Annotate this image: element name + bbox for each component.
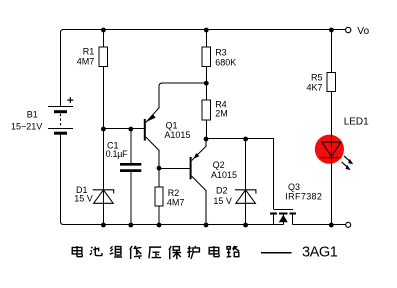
node top rail R3 junction [204, 28, 209, 33]
wire bottom rail right [293, 224, 346, 226]
svg-text:4M7: 4M7 [77, 57, 95, 67]
R3 label 680K [215, 48, 236, 68]
resistor R2 [155, 169, 163, 225]
caption 压 [149, 247, 161, 258]
svg-text:A1015: A1015 [211, 170, 237, 180]
wire R4 bottom [205, 120, 207, 139]
caption 护 [187, 246, 199, 259]
battery B1 [48, 97, 73, 133]
caption 3AG1 [302, 245, 338, 261]
svg-text:4K7: 4K7 [306, 83, 322, 93]
node bottom rail R2 junction [157, 223, 162, 228]
resistor R1 [99, 47, 107, 66]
caption 电 second [209, 246, 219, 257]
svg-text:R5: R5 [311, 73, 323, 83]
MOSFET Q3 [270, 209, 296, 224]
svg-text:15 V: 15 V [74, 194, 93, 204]
node bottom rail D1 junction [101, 223, 106, 228]
LED1 label [344, 116, 369, 127]
wire Q1 base rail [103, 128, 144, 130]
svg-text:4M7: 4M7 [167, 197, 185, 207]
caption 池 [90, 247, 102, 256]
caption 路 [227, 246, 239, 257]
Q1 label A1015 [164, 120, 190, 140]
transistor Q2 [191, 139, 206, 225]
node top rail R5 junction [329, 28, 334, 33]
svg-text:Q1: Q1 [166, 120, 178, 130]
resistor R5 [327, 73, 335, 92]
svg-text:3AG1: 3AG1 [302, 245, 338, 261]
node bottom rail LED junction [329, 223, 334, 228]
Q2 label A1015 [211, 160, 237, 180]
svg-text:B1: B1 [27, 110, 38, 120]
node Q1 collector R2 junction [157, 166, 162, 171]
node R3 R4 junction [204, 81, 209, 86]
zener diode D2 [235, 139, 256, 225]
svg-text:15 V: 15 V [213, 196, 232, 206]
wire Q2 emitter rail to Q3 gate [206, 139, 273, 210]
wire Q1 collector to Q2 base [159, 168, 190, 170]
LED LED1 [315, 92, 353, 225]
R4 label 2M [215, 100, 228, 119]
D2 label 15V [213, 186, 232, 206]
R2 label 4M7 [167, 188, 185, 208]
node R4 Q2 emitter junction [204, 137, 209, 142]
resistor R4 [202, 100, 210, 120]
wire Vo stub [331, 29, 345, 31]
C1 label 0.1uF [106, 141, 128, 159]
wire top rail [61, 30, 346, 107]
R5 label 4K7 [306, 73, 322, 93]
wire R5 LED column [330, 30, 332, 73]
svg-text:Vo: Vo [357, 26, 369, 37]
capacitor C1 [120, 129, 141, 225]
svg-text:0.1µF: 0.1µF [106, 149, 128, 159]
node bottom rail C1 junction [128, 223, 133, 228]
R1 label 4M7 [77, 47, 95, 67]
svg-text:Q3: Q3 [288, 182, 300, 192]
node D2 top junction [243, 137, 248, 142]
svg-text:A1015: A1015 [164, 130, 190, 140]
caption dash [261, 252, 291, 254]
caption 保 [169, 246, 181, 259]
caption 电 [72, 246, 82, 257]
svg-text:LED1: LED1 [344, 116, 369, 127]
wire R1 column [102, 30, 104, 225]
svg-text:IRF7382: IRF7382 [285, 192, 322, 202]
terminal output bottom [346, 222, 351, 227]
D1 label 15V [74, 185, 93, 203]
node R1 base junction [101, 127, 106, 132]
resistor R3 [202, 47, 210, 66]
svg-text:Q2: Q2 [213, 160, 225, 170]
svg-text:R2: R2 [168, 188, 180, 198]
svg-text:2M: 2M [215, 109, 228, 119]
svg-text:15~21V: 15~21V [11, 121, 42, 131]
node bottom rail D2 junction [243, 223, 248, 228]
svg-text:D2: D2 [216, 186, 228, 196]
node C1 base junction [128, 127, 133, 132]
node top rail R1 junction [101, 28, 106, 33]
svg-text:R1: R1 [83, 47, 95, 57]
caption 低 [130, 246, 142, 259]
zener diode D1 [93, 190, 114, 204]
wire R3 column [205, 30, 207, 101]
wire divider junction to Q1 emitter [161, 82, 206, 84]
node bottom rail Q2 collector junction [204, 223, 209, 228]
terminal Vo [346, 26, 370, 37]
svg-text:R3: R3 [215, 48, 227, 58]
B1 label 15~21V [11, 110, 42, 132]
svg-text:680K: 680K [215, 57, 236, 67]
transistor Q1 [145, 83, 162, 168]
wire left rail lower and bottom rail left [61, 133, 284, 224]
Q3 label IRF7382 [285, 182, 322, 202]
caption 组 [110, 246, 122, 257]
